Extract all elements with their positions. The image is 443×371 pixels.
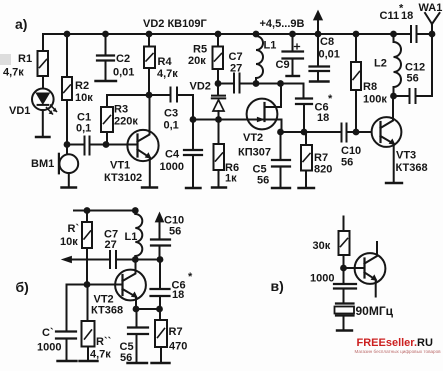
capacitor C-prime	[56, 285, 76, 362]
node top rail junctions	[64, 31, 436, 38]
resistor R1	[38, 34, 49, 89]
svg-text:0,1: 0,1	[164, 120, 179, 132]
ground under R7	[299, 187, 315, 189]
svg-text:4,7к: 4,7к	[157, 68, 178, 80]
capacitor C3	[171, 88, 178, 102]
ground under R-dblprime	[80, 360, 98, 362]
svg-text:56: 56	[169, 226, 181, 238]
wire top supply rail	[43, 33, 432, 35]
wire collector node to gate node	[177, 95, 247, 120]
svg-text:10к: 10к	[75, 92, 93, 104]
resistor R6	[214, 120, 225, 188]
svg-text:4,7к: 4,7к	[90, 349, 111, 361]
svg-text:0,01: 0,01	[113, 67, 134, 79]
svg-text:C7: C7	[229, 51, 243, 63]
svg-text:C8: C8	[320, 36, 334, 48]
resistor R8	[351, 34, 361, 132]
svg-text:R1: R1	[18, 53, 32, 65]
svg-text:20к: 20к	[188, 55, 206, 67]
svg-text:FREEseller.RU: FREEseller.RU	[357, 337, 433, 349]
wire emitter node b	[136, 308, 160, 310]
svg-text:R8: R8	[363, 81, 377, 93]
svg-text:VD2 КВ109Г: VD2 КВ109Г	[143, 18, 207, 30]
ground under C5 b	[128, 362, 148, 364]
resistor R4	[144, 34, 155, 95]
wire source node y132	[282, 131, 372, 133]
ground under VD1	[36, 136, 50, 138]
capacitor C6	[296, 99, 312, 133]
resistor R2	[62, 34, 72, 145]
ground under C9	[287, 75, 300, 77]
svg-text:27: 27	[105, 239, 117, 251]
svg-text:C`: C`	[42, 327, 54, 339]
svg-text:1000: 1000	[160, 161, 184, 173]
svg-text:C9: C9	[276, 59, 290, 71]
svg-text:470: 470	[169, 341, 187, 353]
transistor VT1	[127, 95, 158, 188]
svg-text:18: 18	[317, 112, 329, 124]
transistor VT2 FET	[247, 84, 282, 133]
svg-text:27: 27	[230, 63, 242, 75]
svg-text:КТ368: КТ368	[396, 162, 428, 174]
svg-text:*: *	[399, 3, 404, 15]
svg-text:R``: R``	[96, 336, 112, 348]
capacitor C11	[411, 26, 417, 42]
svg-text:100к: 100к	[363, 94, 387, 106]
svg-text:VT3: VT3	[396, 150, 416, 162]
svg-text:0,01: 0,01	[319, 49, 340, 61]
transistor v	[344, 242, 386, 297]
svg-text:10к: 10к	[60, 236, 78, 248]
capacitor C12	[394, 89, 433, 103]
wire mid rail y83	[218, 84, 304, 99]
wire R3 top to collector node	[107, 94, 171, 96]
wire arrow out b	[62, 256, 160, 262]
svg-text:1000: 1000	[310, 273, 334, 285]
capacitor C2	[97, 34, 114, 81]
resistor R-prime	[82, 211, 92, 285]
node base wire VT1	[67, 144, 138, 146]
svg-text:*: *	[188, 271, 193, 283]
svg-text:КТ3102: КТ3102	[104, 172, 142, 184]
ground under VT3 emitter	[386, 182, 402, 184]
svg-text:КП307: КП307	[238, 147, 271, 159]
svg-text:R4: R4	[158, 56, 173, 68]
resistor 30k	[339, 217, 350, 285]
ground under C-prime	[58, 360, 77, 362]
svg-text:R`: R`	[68, 223, 80, 235]
svg-text:в): в)	[271, 278, 284, 294]
capacitor C5 b	[128, 309, 148, 363]
svg-text:L1: L1	[125, 231, 138, 243]
transistor VT2 b	[67, 260, 146, 310]
svg-text:18: 18	[172, 289, 184, 301]
resistor R3	[101, 95, 113, 145]
svg-text:C2: C2	[116, 53, 130, 65]
capacitor C8	[310, 34, 330, 82]
svg-text:C3: C3	[164, 108, 178, 120]
capacitor C1	[85, 137, 90, 155]
svg-text:L2: L2	[374, 58, 387, 70]
crystal 90MHz	[335, 304, 355, 331]
svg-text:а): а)	[15, 16, 27, 32]
svg-text:WA1: WA1	[419, 2, 443, 14]
svg-text:б): б)	[16, 279, 29, 295]
resistor R7 b	[155, 309, 167, 363]
svg-text:56: 56	[407, 73, 419, 85]
ground under VT1 emitter	[142, 186, 157, 188]
svg-text:R3: R3	[114, 104, 128, 116]
svg-text:30к: 30к	[313, 240, 331, 252]
capacitor C7 b	[110, 251, 116, 268]
transistor VT3	[372, 96, 402, 183]
svg-text:4,7к: 4,7к	[3, 67, 24, 79]
svg-text:L1: L1	[264, 40, 277, 52]
resistor R7	[301, 132, 312, 188]
capacitor C10 b antenna arrow	[151, 213, 170, 260]
svg-text:0,1: 0,1	[76, 123, 91, 135]
capacitor C10	[342, 124, 347, 142]
LED VD1	[32, 89, 57, 138]
svg-text:VD2: VD2	[190, 81, 211, 93]
svg-text:КТ368: КТ368	[91, 305, 123, 317]
svg-text:*: *	[328, 93, 333, 105]
capacitor C7	[234, 74, 240, 93]
svg-text:R7: R7	[314, 152, 328, 164]
antenna WA1	[425, 13, 440, 96]
svg-text:C11: C11	[380, 10, 400, 22]
inductor L2	[394, 34, 402, 96]
svg-text:R5: R5	[193, 44, 207, 56]
svg-text:VT2: VT2	[243, 132, 263, 144]
ground under crystal	[337, 329, 352, 331]
inductor L1 b	[135, 211, 142, 260]
ground under BM1	[62, 186, 77, 188]
svg-text:ВМ1: ВМ1	[31, 158, 54, 170]
resistor R-dblprime	[82, 285, 95, 362]
varicap VD2	[212, 96, 225, 120]
svg-text:820: 820	[314, 164, 332, 176]
svg-text:+4,5...9В: +4,5...9В	[260, 18, 305, 30]
svg-text:R2: R2	[75, 80, 89, 92]
svg-text:C4: C4	[165, 149, 180, 161]
svg-text:R7: R7	[169, 326, 183, 338]
svg-text:220к: 220к	[114, 116, 138, 128]
ground under C2	[96, 80, 117, 82]
wire top rail b	[74, 210, 137, 212]
svg-text:Магазин бесплатных цифровых то: Магазин бесплатных цифровых товаров	[355, 349, 442, 354]
inductor L1	[256, 34, 263, 84]
capacitor 1000 v	[334, 284, 356, 304]
svg-text:56: 56	[120, 352, 132, 364]
ground under R7 b	[152, 362, 170, 364]
ground under C5	[272, 187, 290, 189]
ground under C8	[310, 80, 329, 82]
svg-text:VT1: VT1	[110, 160, 130, 172]
ground under C4	[186, 187, 201, 189]
resistor R5	[213, 34, 224, 96]
svg-text:1к: 1к	[225, 173, 237, 185]
capacitor C5	[272, 132, 290, 188]
microphone BM1	[59, 145, 78, 188]
svg-text:VD1: VD1	[9, 105, 30, 117]
capacitor C9	[283, 34, 304, 76]
svg-text:56: 56	[341, 157, 353, 169]
svg-text:C10: C10	[341, 145, 361, 157]
svg-text:90МГц: 90МГц	[356, 304, 394, 318]
capacitor C4	[184, 120, 202, 189]
ground under R6	[212, 186, 226, 188]
svg-text:1000: 1000	[37, 342, 61, 354]
capacitor C6 b	[151, 260, 170, 310]
svg-text:56: 56	[257, 175, 269, 187]
power arrow +4,5...9V	[314, 11, 323, 34]
